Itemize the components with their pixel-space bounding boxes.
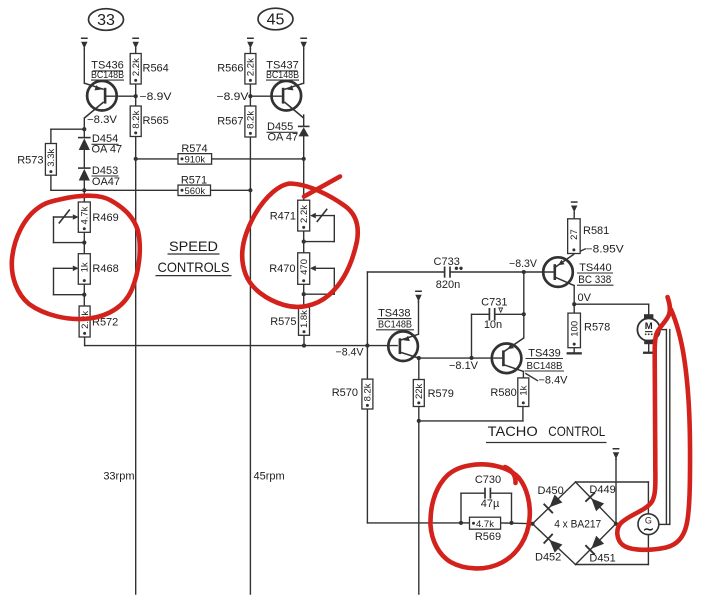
svg-text:SPEED: SPEED — [169, 238, 218, 254]
svg-text:R573: R573 — [17, 154, 43, 166]
svg-text:100: 100 — [569, 321, 580, 337]
svg-text:4.7k: 4.7k — [80, 206, 91, 224]
svg-text:−8.4V: −8.4V — [336, 346, 365, 358]
svg-text:4 x BA217: 4 x BA217 — [554, 518, 601, 530]
svg-text:R469: R469 — [92, 212, 118, 224]
svg-text:R470: R470 — [269, 263, 295, 275]
svg-text:M: M — [645, 321, 653, 332]
svg-text:27: 27 — [569, 229, 580, 240]
svg-text:OA 47: OA 47 — [92, 143, 123, 155]
svg-text:−8.9V: −8.9V — [140, 91, 173, 103]
svg-text:910k: 910k — [185, 155, 206, 166]
svg-text:TS440: TS440 — [579, 262, 611, 274]
svg-text:2.2k: 2.2k — [299, 205, 310, 223]
svg-text:8.2k: 8.2k — [131, 110, 142, 128]
svg-text:OA47: OA47 — [92, 176, 120, 188]
svg-text:R575: R575 — [270, 316, 296, 328]
svg-text:R569: R569 — [475, 531, 501, 543]
svg-text:D452: D452 — [535, 551, 561, 563]
svg-text:560k: 560k — [185, 186, 206, 197]
svg-text:33: 33 — [97, 12, 115, 29]
svg-text:D450: D450 — [538, 485, 564, 497]
svg-text:1.8k: 1.8k — [299, 310, 310, 328]
svg-text:2.2k: 2.2k — [131, 58, 142, 76]
svg-text:4.7k: 4.7k — [476, 519, 494, 530]
svg-text:−8.1V: −8.1V — [449, 360, 479, 372]
svg-text:R574: R574 — [181, 143, 207, 155]
svg-text:8.2k: 8.2k — [246, 111, 257, 129]
svg-text:D449: D449 — [589, 484, 615, 496]
svg-text:R565: R565 — [143, 115, 169, 127]
svg-text:−8.9V: −8.9V — [217, 91, 250, 103]
svg-text:BC148B: BC148B — [378, 319, 412, 331]
svg-text:45: 45 — [267, 12, 285, 29]
svg-text:BC148B: BC148B — [91, 69, 124, 81]
svg-text:R580: R580 — [490, 387, 516, 399]
svg-text:R581: R581 — [583, 225, 609, 237]
svg-text:2.2k: 2.2k — [246, 58, 257, 76]
svg-text:1k: 1k — [80, 262, 91, 272]
svg-text:BC 338: BC 338 — [578, 274, 611, 286]
svg-text:−8.3V: −8.3V — [509, 258, 538, 270]
svg-text:CONTROLS: CONTROLS — [158, 259, 230, 275]
svg-text:1k: 1k — [519, 385, 530, 395]
svg-text:BC148B: BC148B — [527, 360, 563, 372]
svg-text:45rpm: 45rpm — [254, 470, 285, 482]
svg-text:22k: 22k — [414, 383, 425, 399]
svg-text:8.2k: 8.2k — [363, 383, 374, 401]
svg-text:R570: R570 — [332, 387, 358, 399]
svg-text:BC148B: BC148B — [266, 69, 299, 81]
svg-text:33rpm: 33rpm — [103, 470, 134, 482]
svg-text:820n: 820n — [436, 279, 460, 291]
svg-text:R471: R471 — [270, 211, 296, 223]
svg-text:TACHO: TACHO — [488, 423, 538, 439]
svg-text:−8.95V: −8.95V — [586, 244, 625, 256]
svg-text:10n: 10n — [484, 319, 502, 331]
svg-text:R567: R567 — [217, 115, 243, 127]
svg-text:470: 470 — [299, 259, 310, 275]
svg-text:R571: R571 — [181, 174, 207, 186]
svg-text:47µ: 47µ — [481, 498, 500, 510]
svg-text:R564: R564 — [143, 62, 169, 74]
svg-text:CONTROL: CONTROL — [548, 423, 605, 439]
svg-text:3.3k: 3.3k — [46, 149, 57, 167]
svg-text:C730: C730 — [475, 474, 501, 486]
svg-text:−8.3V: −8.3V — [87, 114, 118, 126]
svg-text:TS439: TS439 — [528, 347, 560, 359]
svg-text:−8.4V: −8.4V — [539, 375, 569, 387]
svg-text:∼: ∼ — [643, 522, 654, 537]
svg-text:D451: D451 — [589, 552, 615, 564]
svg-text:R578: R578 — [584, 322, 610, 334]
svg-text:OA 47: OA 47 — [268, 131, 299, 143]
svg-text:0V: 0V — [578, 292, 592, 304]
svg-text:R566: R566 — [217, 62, 243, 74]
svg-text:C731: C731 — [481, 297, 507, 309]
svg-text:R579: R579 — [428, 388, 454, 400]
svg-text:R468: R468 — [92, 263, 118, 275]
svg-text:C733: C733 — [434, 256, 460, 268]
